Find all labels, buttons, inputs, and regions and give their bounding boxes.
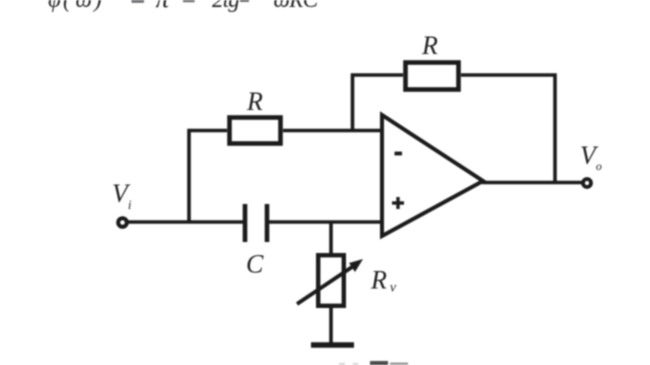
svg-text:ωRC: ωRC — [274, 0, 319, 12]
wire: Rv stem bottom to ground — [329, 307, 333, 344]
svg-text:(: ( — [63, 0, 72, 12]
resistor R (top, feedback) — [406, 63, 459, 90]
Rv arrow — [297, 263, 358, 304]
output terminal (Vo) — [583, 179, 591, 187]
variable resistor Rv — [318, 255, 344, 306]
formula phi(omega) = pi - 2tg^-1 omegaRC (top, cut off) — [48, 0, 319, 13]
wire: left resistor R to op-amp - input — [283, 129, 382, 133]
op-amp - input sign — [395, 152, 403, 156]
wire: capacitor to op-amp + input — [269, 220, 382, 224]
svg-text:R: R — [246, 87, 263, 116]
svg-text:R: R — [421, 31, 438, 60]
ground — [311, 342, 354, 347]
wire: feedback left vertical (node to top R) — [353, 75, 404, 131]
capacitor C — [245, 204, 267, 242]
wire: input line Vi to capacitor — [126, 220, 243, 224]
svg-text:π: π — [156, 0, 171, 13]
svg-text:Rv: Rv — [370, 266, 397, 296]
svg-text:): ) — [92, 0, 102, 12]
svg-text:φ: φ — [48, 0, 61, 12]
op-amp U1 — [382, 115, 483, 236]
svg-text:Vo: Vo — [580, 141, 602, 173]
svg-text:Vi: Vi — [112, 179, 132, 212]
op-amp + input sign — [392, 197, 404, 209]
wire: op-amp output to Vo terminal — [482, 181, 584, 185]
wire: top resistor R to right corner — [461, 75, 555, 182]
svg-text:C: C — [246, 250, 264, 279]
input terminal (Vi) — [118, 218, 127, 227]
wire: Rv stem top — [329, 222, 333, 254]
resistor R (left, input) — [230, 118, 281, 144]
caption fragment (bottom, cut off) — [339, 363, 345, 365]
svg-text:2tg: 2tg — [212, 0, 239, 12]
wire: left vertical from input node up to resistor R level — [189, 131, 227, 223]
svg-text:ω: ω — [76, 0, 92, 12]
